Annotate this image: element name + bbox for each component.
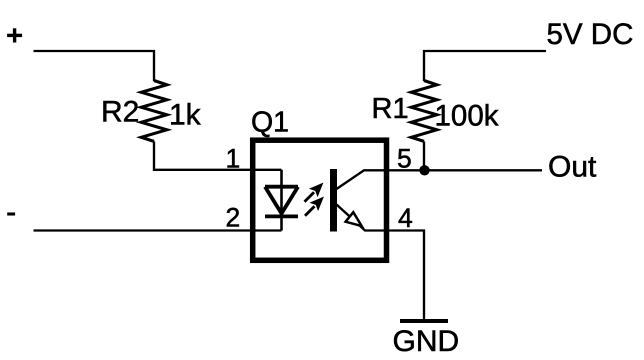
svg-text:1: 1	[226, 143, 241, 173]
svg-text:R1: R1	[372, 93, 409, 125]
LED cathode bar	[265, 214, 298, 218]
optocoupler Q1 package box	[253, 140, 387, 260]
svg-text:Out: Out	[548, 150, 597, 183]
wire from + terminal to resistor R2 top	[34, 51, 155, 81]
svg-text:2: 2	[226, 203, 241, 233]
wire R1 bottom to output node	[423, 141, 425, 170]
node junction dot at output	[419, 165, 429, 175]
wire from R2 bottom to optocoupler pin 1	[154, 141, 282, 169]
svg-text:5V DC: 5V DC	[547, 18, 634, 51]
LED triangle	[265, 187, 298, 214]
light arrow 1	[305, 184, 323, 202]
wire pin 4 to ground	[387, 231, 425, 320]
transistor emitter lead to pin 4	[337, 205, 387, 231]
resistor R2	[141, 81, 167, 142]
svg-text:R2: R2	[101, 96, 139, 129]
wire pin 5 to Out	[387, 169, 543, 171]
svg-text:4: 4	[398, 203, 413, 233]
svg-text:1k: 1k	[169, 98, 202, 131]
emitter arrowhead	[346, 212, 362, 226]
transistor collector lead to pin 5	[337, 170, 387, 189]
svg-text:100k: 100k	[435, 100, 499, 133]
svg-text:GND: GND	[393, 325, 460, 358]
svg-text:Q1: Q1	[251, 106, 289, 138]
LED anode lead inside optocoupler	[280, 170, 283, 231]
node + (positive input terminal)	[7, 28, 22, 42]
light arrow 2	[305, 198, 323, 216]
svg-text:5: 5	[397, 143, 412, 173]
resistor R1	[411, 81, 437, 142]
wire from - terminal to optocoupler pin 2 (LED cathode)	[34, 229, 282, 231]
ground	[400, 319, 448, 323]
node - (negative input terminal)	[7, 212, 15, 215]
transistor Q phototransistor base bar	[330, 169, 337, 232]
wire 5V DC rail to resistor R1 top	[424, 51, 546, 81]
